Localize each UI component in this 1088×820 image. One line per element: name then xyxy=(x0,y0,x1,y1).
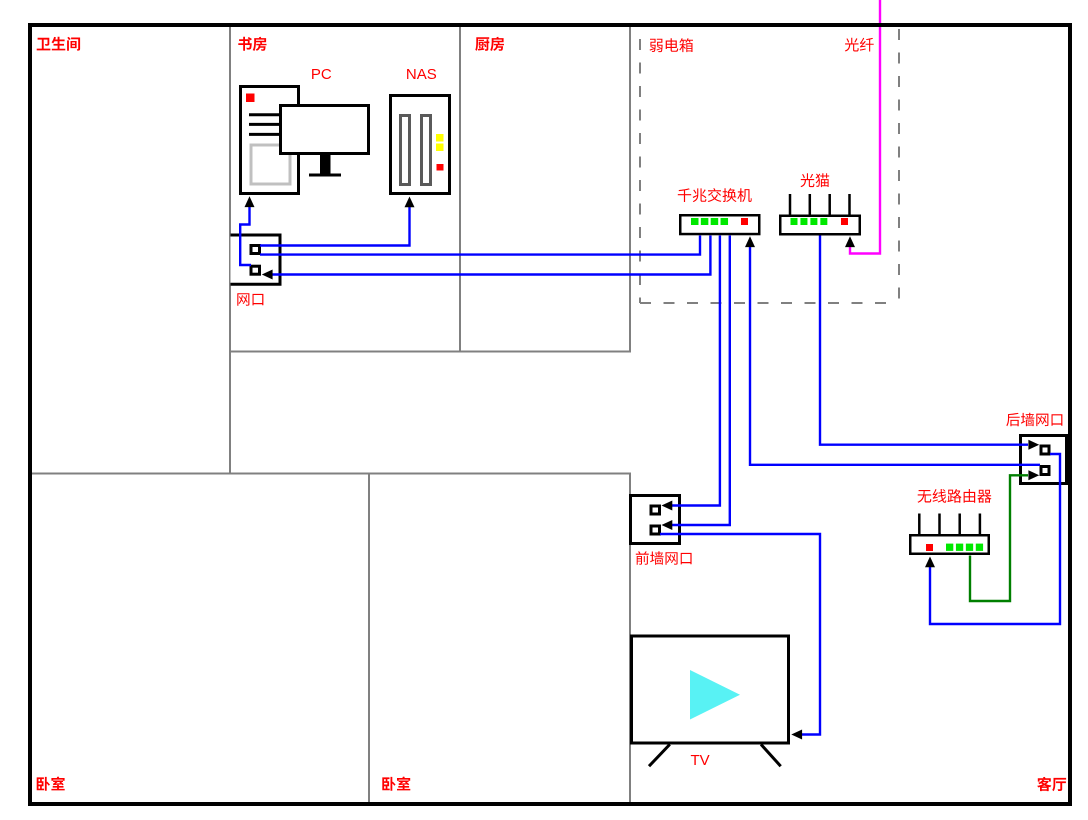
svg-text:TV: TV xyxy=(691,752,710,769)
svg-text:PC: PC xyxy=(311,66,332,83)
svg-text:NAS: NAS xyxy=(406,66,437,83)
